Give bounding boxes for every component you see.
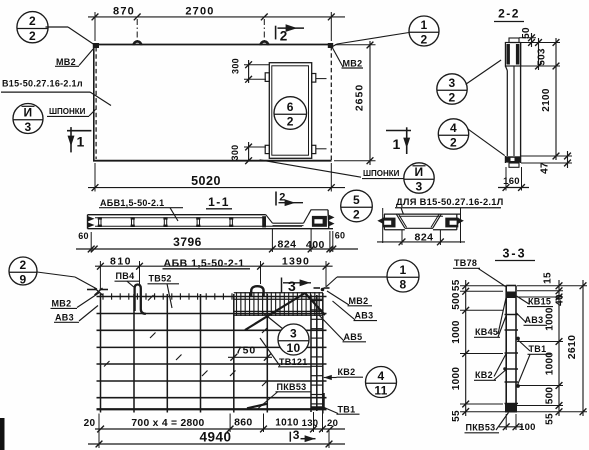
section 3-3 overall dimension 2610 bbox=[517, 280, 587, 416]
section 1-1 strip body bbox=[88, 215, 334, 229]
strip left end key teeth bbox=[88, 217, 94, 228]
callout 5/2 bbox=[341, 190, 373, 222]
svg-text:ШПОНКИ: ШПОНКИ bbox=[363, 169, 400, 178]
svg-text:3796: 3796 bbox=[173, 235, 202, 249]
svg-text:1000: 1000 bbox=[545, 307, 556, 331]
label AV3 plan right bbox=[333, 301, 378, 321]
svg-text:КВ15: КВ15 bbox=[528, 296, 551, 306]
label KV15 with leader bbox=[517, 296, 554, 307]
svg-text:ТВ121: ТВ121 bbox=[279, 357, 308, 367]
svg-text:2-2: 2-2 bbox=[498, 6, 520, 20]
svg-text:300: 300 bbox=[230, 145, 240, 161]
dimension 824 joint detail bbox=[377, 208, 465, 245]
svg-text:2700: 2700 bbox=[185, 5, 214, 17]
svg-text:15: 15 bbox=[543, 272, 554, 284]
section mark 2 bottom bbox=[276, 191, 303, 205]
svg-text:10: 10 bbox=[287, 341, 301, 355]
svg-text:АВ5: АВ5 bbox=[344, 332, 363, 342]
label SHPONKI right with callout I/3 bbox=[260, 160, 435, 194]
svg-text:160: 160 bbox=[503, 176, 520, 187]
svg-text:100: 100 bbox=[519, 422, 536, 433]
dimension 300 opening top bbox=[231, 58, 270, 83]
svg-text:1: 1 bbox=[393, 136, 401, 152]
svg-text:824: 824 bbox=[414, 231, 433, 243]
svg-text:60: 60 bbox=[335, 231, 346, 241]
title 2-2 bbox=[494, 6, 524, 21]
plan bottom dimension row 1 bbox=[84, 412, 345, 432]
callout 1/8 with leader bbox=[327, 260, 420, 292]
svg-text:400: 400 bbox=[306, 239, 325, 251]
svg-text:КВ45: КВ45 bbox=[475, 327, 498, 337]
label SHPONKI left with callout I/3 bbox=[13, 104, 96, 135]
diagonal bars top right bbox=[245, 293, 325, 330]
member bar crossings bbox=[503, 315, 520, 404]
callout 6/2 in opening bbox=[274, 97, 307, 130]
svg-text:3: 3 bbox=[293, 428, 300, 442]
label ABV1,5-50-2.1 with leader bbox=[99, 198, 183, 221]
svg-text:МВ2: МВ2 bbox=[52, 298, 72, 308]
svg-text:ТВ52: ТВ52 bbox=[149, 274, 172, 284]
dimension 300 opening bottom bbox=[230, 142, 266, 164]
label KV45 with two leaders bbox=[474, 297, 506, 337]
svg-text:20: 20 bbox=[84, 418, 96, 429]
svg-text:3-3: 3-3 bbox=[502, 247, 526, 261]
svg-text:300: 300 bbox=[231, 58, 241, 74]
svg-text:9: 9 bbox=[20, 273, 27, 287]
svg-text:55: 55 bbox=[451, 410, 462, 422]
svg-text:В15-50.27.16-2.1л: В15-50.27.16-2.1л bbox=[2, 79, 83, 89]
svg-text:ТВ78: ТВ78 bbox=[454, 258, 477, 268]
opening frame outer bbox=[269, 63, 311, 159]
label TV1 section 3-3 with two leaders bbox=[518, 340, 552, 386]
callout 1/2 bbox=[333, 16, 440, 47]
svg-text:6: 6 bbox=[287, 100, 294, 114]
svg-text:МВ2: МВ2 bbox=[56, 57, 76, 67]
label PKV53 with leader bbox=[258, 382, 311, 409]
svg-text:870: 870 bbox=[113, 5, 135, 17]
svg-text:2: 2 bbox=[29, 29, 36, 43]
svg-text:1-1: 1-1 bbox=[208, 195, 230, 209]
svg-text:АВ3: АВ3 bbox=[55, 312, 74, 322]
section mark 1 right bbox=[386, 127, 411, 154]
label TV52 with leader bbox=[148, 274, 180, 308]
svg-text:2: 2 bbox=[449, 91, 456, 105]
section mark 3 bottom bbox=[290, 428, 315, 442]
svg-text:2: 2 bbox=[20, 258, 27, 272]
svg-text:МВ2: МВ2 bbox=[349, 296, 369, 306]
svg-text:3: 3 bbox=[288, 278, 296, 294]
lifting loop PV4 in mesh bbox=[135, 285, 146, 314]
svg-text:3: 3 bbox=[25, 120, 32, 134]
label PV4 with leader bbox=[115, 271, 141, 288]
svg-text:40: 40 bbox=[555, 294, 566, 306]
svg-text:1: 1 bbox=[421, 18, 428, 32]
label MB2 left bbox=[55, 48, 94, 67]
svg-text:1: 1 bbox=[77, 134, 85, 150]
svg-text:АБВ1,5-50-2.1: АБВ1,5-50-2.1 bbox=[100, 198, 164, 208]
svg-text:КВ2: КВ2 bbox=[338, 367, 356, 377]
svg-text:500: 500 bbox=[545, 387, 556, 405]
svg-text:860: 860 bbox=[234, 417, 252, 429]
svg-text:5: 5 bbox=[353, 193, 360, 207]
extra top chords right zone bbox=[234, 293, 323, 315]
svg-text:1390: 1390 bbox=[282, 256, 310, 268]
label PKV53 section 3-3 with leader bbox=[465, 413, 509, 433]
label TV121 with leader bbox=[260, 338, 311, 367]
rebar mesh horizontal bars bbox=[97, 297, 327, 410]
svg-text:503: 503 bbox=[537, 48, 548, 66]
svg-text:2650: 2650 bbox=[354, 84, 366, 111]
svg-text:2610: 2610 bbox=[566, 335, 578, 360]
label AV5 plan right bbox=[320, 316, 367, 342]
svg-text:ТВ1: ТВ1 bbox=[338, 404, 356, 414]
dimension 750 inside mesh bbox=[228, 345, 272, 361]
opening clamp tabs bbox=[265, 73, 326, 154]
svg-text:ПКВ53: ПКВ53 bbox=[277, 382, 307, 392]
svg-text:3: 3 bbox=[416, 180, 423, 194]
label KV2 with leader and callout 4/11 bbox=[324, 367, 397, 398]
section 2-2 panel edge member bbox=[505, 38, 520, 167]
lifting loop left on top edge bbox=[134, 41, 142, 45]
section 3-3 member bbox=[505, 286, 517, 413]
section 3-3 right inner dimension chain bbox=[517, 272, 566, 425]
embed plate mark top-right corner bbox=[328, 43, 333, 48]
svg-text:50: 50 bbox=[521, 27, 532, 39]
callout 4/2 bbox=[438, 119, 504, 156]
dimension 100 section 3-3 bbox=[499, 414, 536, 433]
stirrup ticks along top chord bbox=[103, 293, 232, 299]
dimension 5020 bottom of plan bbox=[88, 163, 345, 192]
dimension 503 section 2-2 bbox=[521, 38, 560, 70]
label TV78 with leader bbox=[453, 258, 506, 287]
strip stiffener posts bbox=[98, 217, 234, 227]
svg-text:ПВ4: ПВ4 bbox=[116, 271, 135, 281]
loop in mesh at 1390 area bbox=[251, 286, 263, 296]
scan artifact black bar bottom-left edge bbox=[0, 418, 5, 450]
svg-text:ШПОНКИ: ШПОНКИ bbox=[49, 107, 86, 116]
callout 2/2 bbox=[17, 12, 94, 45]
dense stirrups top right zone bbox=[237, 292, 320, 316]
plan bottom dimension 4940 bbox=[88, 414, 345, 449]
rebar mesh vertical bars bbox=[101, 293, 323, 414]
svg-text:5020: 5020 bbox=[191, 174, 221, 188]
svg-text:1000: 1000 bbox=[451, 320, 462, 344]
callout 3/10 with leader bbox=[262, 312, 309, 355]
section mark 2 top bbox=[276, 25, 304, 44]
svg-text:И: И bbox=[24, 105, 33, 119]
title 3-3 bbox=[495, 247, 535, 261]
svg-text:АВ3: АВ3 bbox=[355, 311, 374, 321]
svg-text:2: 2 bbox=[450, 136, 457, 150]
bent bar PKV53 along bottom chord bbox=[247, 393, 324, 409]
svg-text:4: 4 bbox=[450, 121, 457, 135]
svg-text:3: 3 bbox=[449, 76, 456, 90]
svg-text:810: 810 bbox=[110, 256, 132, 268]
svg-text:500: 500 bbox=[451, 292, 462, 310]
panel plan outline bbox=[93, 45, 333, 161]
svg-text:8: 8 bbox=[400, 278, 407, 292]
dimension 160 section 2-2 bbox=[498, 167, 529, 191]
svg-text:47: 47 bbox=[540, 162, 551, 174]
svg-text:4940: 4940 bbox=[199, 430, 231, 445]
section mark 1 left bbox=[67, 127, 91, 152]
lifting loop right on top edge bbox=[261, 41, 269, 45]
svg-text:И: И bbox=[415, 165, 424, 179]
callout 2/9 with leader bbox=[9, 257, 97, 289]
dimension 2650 right of plan bbox=[334, 41, 376, 165]
strip right end block with window bbox=[308, 210, 333, 229]
svg-text:1: 1 bbox=[400, 263, 407, 277]
svg-text:55: 55 bbox=[451, 279, 462, 291]
label TV1 with leader bbox=[323, 404, 360, 414]
svg-text:20: 20 bbox=[327, 418, 338, 429]
label MV2 plan left bbox=[51, 293, 100, 309]
section mark 3 top bbox=[282, 278, 312, 295]
svg-text:МВ2: МВ2 bbox=[343, 58, 363, 68]
svg-text:4: 4 bbox=[378, 369, 385, 383]
svg-text:3: 3 bbox=[290, 326, 297, 340]
svg-text:2: 2 bbox=[287, 115, 294, 129]
embed plate mark top-left corner bbox=[93, 43, 99, 48]
opening frame inner bbox=[272, 66, 309, 155]
strip end post dark bbox=[262, 216, 266, 227]
label DLYa B15-50.27.16-2.1L bbox=[395, 197, 504, 214]
dimension 47 section 2-2 bbox=[521, 151, 572, 174]
loose joint detail for B15 panel bbox=[378, 214, 463, 230]
svg-text:130: 130 bbox=[302, 418, 319, 429]
section 3-3 left dimension chain bbox=[451, 279, 506, 422]
svg-text:2: 2 bbox=[421, 33, 428, 47]
svg-text:ДЛЯ В15-50.27.16-2.1Л: ДЛЯ В15-50.27.16-2.1Л bbox=[396, 197, 504, 207]
dimension 2100 section 2-2 bbox=[541, 38, 559, 160]
title 1-1 bbox=[206, 195, 232, 209]
svg-text:1000: 1000 bbox=[545, 352, 556, 376]
svg-text:ТВ1: ТВ1 bbox=[529, 344, 547, 354]
title ABV 1,5-50-2-1 bbox=[163, 257, 251, 269]
label MB2 right bbox=[332, 47, 363, 68]
dimension 50 section 2-2 bbox=[519, 27, 560, 47]
svg-text:АВ3: АВ3 bbox=[525, 315, 544, 325]
svg-text:ПКВ53: ПКВ53 bbox=[466, 423, 496, 433]
strip dimension line 60/3796/824/400/60 bbox=[76, 229, 358, 252]
label AV3 section 3-3 bbox=[517, 313, 548, 325]
svg-text:55: 55 bbox=[545, 413, 556, 425]
svg-text:2: 2 bbox=[353, 208, 360, 222]
svg-text:11: 11 bbox=[374, 384, 387, 398]
bar lap jog marks in mesh bbox=[104, 295, 268, 386]
right edge ladder rungs bbox=[311, 301, 323, 404]
label B15-50.27.16-2.1L with leader bbox=[1, 79, 111, 106]
svg-text:824: 824 bbox=[277, 238, 296, 250]
svg-text:1000: 1000 bbox=[451, 367, 462, 391]
section cut line 2 (dash-dot) bbox=[263, 19, 265, 43]
plan top dimension 810 / 1390 bbox=[95, 256, 333, 291]
svg-text:КВ2: КВ2 bbox=[475, 370, 493, 380]
strip recess bbox=[266, 215, 308, 226]
label AV3 plan left bbox=[54, 306, 98, 323]
svg-text:60: 60 bbox=[78, 231, 89, 241]
svg-text:2: 2 bbox=[29, 14, 36, 28]
svg-text:700 х 4 = 2800: 700 х 4 = 2800 bbox=[131, 418, 204, 429]
svg-text:750: 750 bbox=[236, 345, 257, 357]
label KV2 section 3-3 with two leaders bbox=[474, 354, 506, 381]
callout 3/2 bbox=[437, 60, 501, 105]
top dimension line 870 / 2700 bbox=[88, 5, 345, 41]
svg-text:АБВ 1,5-50-2-1: АБВ 1,5-50-2-1 bbox=[164, 257, 245, 269]
embed dashes top-right of mesh bbox=[314, 288, 330, 292]
embed dashes top-left of mesh bbox=[87, 288, 108, 295]
svg-text:2100: 2100 bbox=[541, 88, 552, 112]
label MV2 plan right bbox=[327, 291, 372, 306]
